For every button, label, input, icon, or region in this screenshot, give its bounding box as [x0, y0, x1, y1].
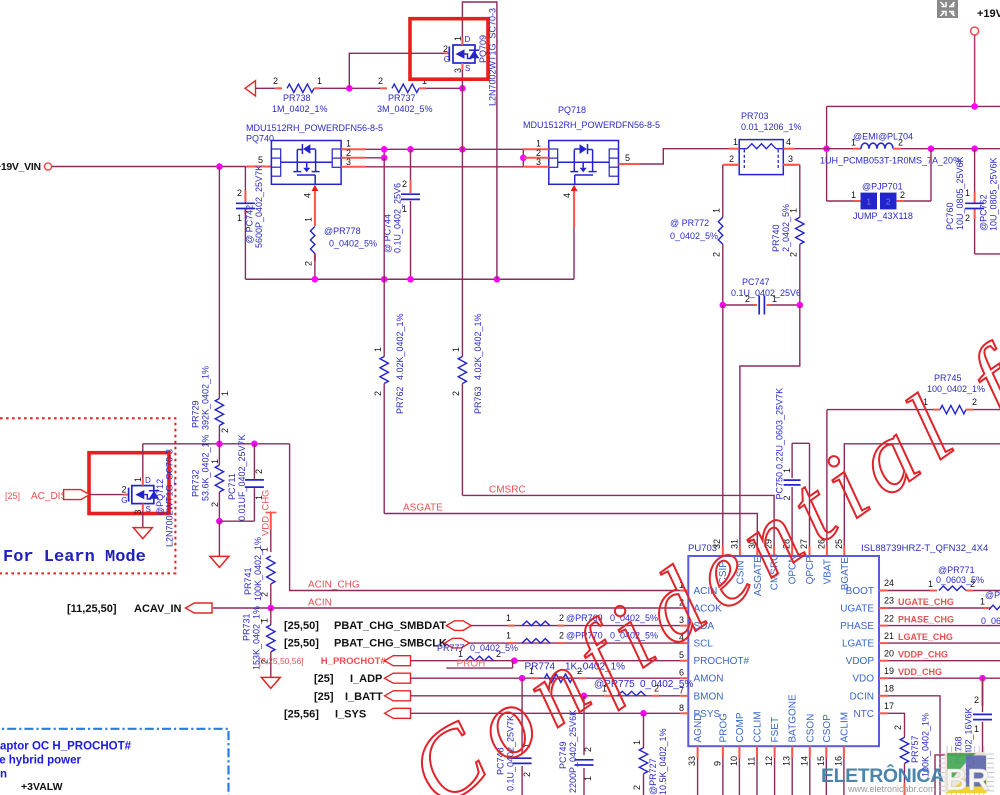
svg-text:4.02K_0402_1%: 4.02K_0402_1% — [395, 313, 405, 380]
transistor PQ740 mosfet symbol — [296, 150, 298, 172]
svg-text:2: 2 — [970, 579, 975, 589]
svg-text:@ PC742: @ PC742 — [245, 205, 255, 244]
capacitor PC760 (10U_0805_25V6K) — [965, 202, 984, 204]
svg-text:3: 3 — [536, 157, 541, 167]
wire PC760 bottom to PC762 — [975, 253, 1000, 255]
svg-text:1: 1 — [220, 391, 230, 396]
svg-text:VDOP: VDOP — [846, 656, 875, 667]
svg-text:ACIN_CHG: ACIN_CHG — [308, 580, 360, 591]
svg-text:2: 2 — [729, 154, 734, 164]
svg-text:FSET: FSET — [770, 717, 781, 743]
junction rail PR778 — [312, 276, 319, 283]
pin 18 DCIN — [879, 695, 888, 697]
pin 13 BATGONE column — [791, 746, 793, 758]
svg-text:2: 2 — [220, 428, 230, 433]
ground PQ712 — [133, 528, 152, 539]
svg-text:2: 2 — [237, 188, 242, 198]
svg-text:2: 2 — [583, 747, 593, 752]
svg-text:2: 2 — [259, 592, 269, 597]
svg-text:PR737: PR737 — [388, 93, 416, 103]
junction rail PC744 — [407, 276, 414, 283]
svg-text:0.1U_0402_25V6: 0.1U_0402_25V6 — [731, 288, 801, 298]
svg-text:ASGATE: ASGATE — [403, 503, 443, 514]
svg-text:[25]: [25] — [5, 491, 20, 501]
svg-text:10U_0805_25V6K: 10U_0805_25V6K — [989, 157, 999, 231]
pin 33 AGND column — [697, 746, 699, 758]
svg-text:PC711: PC711 — [227, 473, 237, 500]
svg-text:2_0402_5%: 2_0402_5% — [781, 204, 791, 252]
svg-text:aptor OC H_PROCHOT#: aptor OC H_PROCHOT# — [0, 741, 132, 753]
junction PR703 pin4 / PL704 pin1 node — [823, 145, 830, 152]
svg-text:n: n — [0, 769, 7, 781]
pin 23 UGATE — [879, 607, 888, 609]
svg-text:13: 13 — [782, 756, 792, 766]
svg-text:MDU1512RH_POWERDFN56-8-5: MDU1512RH_POWERDFN56-8-5 — [246, 123, 383, 133]
svg-text:[2,25,50,56]: [2,25,50,56] — [259, 656, 304, 666]
junction PQ718 pin connector — [520, 155, 527, 162]
svg-text:0_0402_5%: 0_0402_5% — [470, 643, 518, 653]
svg-text:100K_0402_1%: 100K_0402_1% — [253, 537, 263, 601]
wire +19V horizontal rail — [827, 105, 1000, 107]
junction PL704 output / PC760 — [971, 145, 978, 152]
wire SCL row — [470, 642, 681, 644]
pin 7 BMON — [680, 695, 688, 697]
svg-text:G: G — [444, 55, 450, 64]
svg-text:2: 2 — [632, 785, 642, 790]
svg-text:3: 3 — [788, 154, 793, 164]
pin 5 PROCHOT# — [680, 660, 688, 662]
inductor PL704 coils — [861, 143, 893, 149]
junction VDO / PC768 — [979, 675, 986, 682]
wire PR703 pin4 to +19V node — [795, 148, 827, 150]
svg-text:LGATE: LGATE — [842, 639, 874, 650]
svg-text:VDO: VDO — [852, 674, 874, 685]
resistor PR763 (4.02K_0402_1%) — [458, 357, 466, 384]
svg-text:ACLIM: ACLIM — [839, 712, 850, 743]
transistor PQ709 (L2N7002WT1G_SC70-3) — [444, 52, 449, 54]
svg-text:BATGONE: BATGONE — [788, 694, 799, 742]
svg-text:L2N7002WT1G_SC70-3: L2N7002WT1G_SC70-3 — [165, 449, 175, 547]
resistor PR737 (3M_0402_5%) — [392, 84, 419, 92]
wire ASGATE horizontal to IC pin30 — [384, 514, 757, 547]
svg-text:PHASE_CHG: PHASE_CHG — [898, 614, 954, 624]
svg-text:CSOP: CSOP — [822, 714, 833, 743]
svg-text:23: 23 — [884, 596, 894, 606]
svg-text:1: 1 — [259, 547, 269, 552]
transistor PQ718 (MDU1512RH_POWERDFN56-8-5) package — [549, 141, 619, 185]
wire BOOT row — [888, 590, 930, 592]
transistor PQ740 (MDU1512RH_POWERDFN56-8-5) package — [271, 141, 341, 185]
svg-text:MDU1512RH_POWERDFN56-8-5: MDU1512RH_POWERDFN56-8-5 — [523, 120, 660, 130]
wire jumper riser to PL704 output — [930, 149, 932, 201]
svg-text:11: 11 — [747, 757, 757, 766]
svg-text:1: 1 — [733, 137, 738, 147]
svg-text:1: 1 — [506, 631, 511, 641]
svg-text:2: 2 — [121, 485, 126, 495]
svg-text:BR: BR — [945, 762, 990, 795]
svg-text:I_SYS: I_SYS — [335, 708, 366, 720]
resistor PR757 (100K_0402_1%) — [900, 737, 908, 763]
svg-text:9: 9 — [712, 761, 722, 766]
wire VDOP row — [888, 660, 1000, 662]
svg-text:3: 3 — [453, 68, 463, 73]
resistor PR777 (0_0402_5%) — [466, 656, 494, 661]
pin 20 VDOP — [879, 660, 888, 662]
svg-text:0_0402_5%: 0_0402_5% — [329, 239, 377, 249]
svg-text:PHASE: PHASE — [840, 621, 874, 632]
svg-text:14: 14 — [799, 756, 809, 766]
svg-text:1: 1 — [851, 190, 856, 200]
wire BGATE column and row — [844, 444, 1000, 556]
pin stubs PR703 — [729, 148, 739, 150]
svg-text:PR703: PR703 — [741, 111, 769, 121]
svg-text:4.02K_0402_1%: 4.02K_0402_1% — [473, 313, 483, 380]
svg-text:PR738: PR738 — [283, 93, 311, 103]
junction VIN / PR729 branch — [216, 163, 223, 170]
svg-text:2: 2 — [745, 294, 750, 304]
wire +19V_VIN to PQ740 — [52, 166, 245, 168]
svg-text:5: 5 — [258, 155, 263, 165]
resistor PR778 column — [314, 254, 316, 262]
capacitor PC749 column — [583, 696, 585, 755]
node +19V port — [971, 27, 979, 35]
svg-text:24: 24 — [884, 578, 894, 588]
wire VBAT column to PR745 row — [826, 410, 828, 556]
svg-text:PROG: PROG — [718, 713, 729, 743]
svg-text:3: 3 — [346, 157, 351, 167]
svg-text:33: 33 — [687, 756, 697, 766]
svg-text:2: 2 — [378, 76, 383, 86]
wire +19V node to PL704 pin1 — [827, 148, 853, 150]
svg-text:1: 1 — [965, 188, 970, 198]
svg-text:2: 2 — [402, 179, 407, 189]
svg-text:VDD_CHG: VDD_CHG — [898, 667, 942, 677]
svg-text:1: 1 — [974, 724, 979, 734]
svg-text:2: 2 — [711, 252, 721, 257]
svg-text:10U_0805_25V6K: 10U_0805_25V6K — [955, 156, 965, 230]
wire bracket top — [792, 442, 809, 444]
resistor PR729 (392K_0402_1%) — [215, 399, 223, 426]
svg-text:10: 10 — [729, 756, 739, 766]
capacitor PC750 (0.22U_0603_25V7K) — [784, 479, 801, 481]
wire BMON row — [411, 695, 681, 697]
svg-text:1: 1 — [402, 204, 407, 214]
resistor PR732 (53.6K_0402_1%) — [218, 444, 220, 465]
svg-text:3: 3 — [133, 509, 143, 514]
junction learn row PC711 — [251, 441, 258, 448]
svg-text:1: 1 — [259, 618, 269, 623]
wire PR729 to learn row — [218, 426, 220, 444]
svg-text:JUMP_43X118: JUMP_43X118 — [853, 211, 913, 221]
svg-text:L2N7002WT1G_SC70-3: L2N7002WT1G_SC70-3 — [488, 8, 498, 106]
capacitor PC760 column — [974, 149, 976, 192]
junction PROCHOT — [511, 657, 518, 664]
svg-text:1M_0402_1%: 1M_0402_1% — [272, 104, 328, 114]
capacitor PC742 (5600P_0402_25V7K) — [236, 202, 255, 204]
wire PROCHOT row — [411, 660, 681, 662]
svg-text:PR757: PR757 — [910, 735, 920, 763]
svg-text:1: 1 — [304, 217, 314, 222]
svg-text:[25]: [25] — [314, 691, 334, 703]
svg-text:PR763: PR763 — [473, 386, 483, 414]
icon collapse — [937, 0, 958, 18]
junction learn row PR729 — [216, 441, 223, 448]
svg-text:[25,50]: [25,50] — [284, 620, 319, 632]
pin 9 PROG column — [722, 746, 724, 758]
resistor PR745 (100_0402_1%) — [940, 405, 966, 413]
junction PL704 output / jumper riser — [928, 145, 935, 152]
svg-text:PC760: PC760 — [945, 202, 955, 230]
svg-text:10.5K_0402_1%: 10.5K_0402_1% — [658, 728, 668, 795]
capacitor PC711 column — [253, 444, 255, 479]
wire QPCP column — [809, 443, 811, 546]
net alias PROH — [446, 667, 512, 669]
svg-text:UGATE: UGATE — [840, 604, 874, 615]
svg-text:PQ740: PQ740 — [246, 134, 274, 144]
logo ELETRONICABR — [821, 746, 994, 795]
junction PC747 right — [797, 302, 804, 309]
svg-text:@PJP701: @PJP701 — [862, 182, 903, 192]
svg-text:18: 18 — [884, 684, 894, 694]
svg-text:0.01_1206_1%: 0.01_1206_1% — [741, 122, 802, 132]
node gate drive arrow port — [245, 81, 256, 96]
resistor PR731 (153K_0402_1%) — [270, 608, 272, 625]
resistor PR740 column — [783, 164, 800, 166]
svg-text:+19VA: +19VA — [977, 8, 1000, 20]
svg-text:I_ADP: I_ADP — [350, 673, 382, 685]
transistor PQ712 (L2N7002WT1G_SC70-3) — [123, 494, 129, 496]
wire VBAT branch down to PR703/PL704 row — [826, 106, 828, 201]
wire PC768 bottom — [935, 755, 983, 795]
svg-text:[25,56]: [25,56] — [284, 708, 319, 720]
pin 12 FSET column — [774, 746, 776, 758]
svg-text:AC_DIS: AC_DIS — [31, 491, 67, 502]
wire UGATE row — [888, 607, 984, 609]
svg-text:PC747: PC747 — [742, 277, 770, 287]
capacitor PC747 (0.1U_0402_25V6) — [758, 296, 760, 315]
svg-text:AMON: AMON — [694, 674, 724, 685]
resistor PR774 (1K_0402_1%) — [531, 677, 538, 679]
junction PC747 left — [720, 302, 727, 309]
pin 24 BOOT — [879, 590, 888, 592]
svg-text:1: 1 — [317, 76, 322, 86]
wire arrow to PR738 — [256, 87, 276, 89]
svg-text:PR740: PR740 — [771, 224, 781, 252]
svg-text:For Learn Mode: For Learn Mode — [3, 548, 146, 567]
wire PQ712 drain up — [142, 444, 144, 479]
wire PR745 east — [966, 409, 973, 411]
pin 6 AMON — [680, 677, 688, 679]
svg-text:1: 1 — [346, 139, 351, 149]
svg-text:www.eletronicabr.com: www.eletronicabr.com — [847, 784, 936, 794]
svg-text:2: 2 — [254, 469, 264, 474]
highlight dotted box For Learn Mode — [0, 418, 175, 573]
pin 1 ACIN — [680, 590, 688, 592]
svg-text:12: 12 — [764, 756, 774, 766]
wire PR757 down — [904, 763, 906, 783]
wire AC_DIS to PQ712 gate — [90, 494, 123, 496]
svg-text:2: 2 — [965, 213, 970, 223]
svg-text:PR732: PR732 — [191, 469, 201, 497]
svg-text:1UH_PCMB053T-1R0MS_7A_20%: 1UH_PCMB053T-1R0MS_7A_20% — [820, 156, 961, 166]
resistor PR778 (0_0402_5%) — [310, 227, 315, 254]
svg-text:1: 1 — [237, 213, 242, 223]
svg-text:+19V_VIN: +19V_VIN — [0, 161, 41, 173]
transistor PQ740 pin4 arrow — [312, 185, 319, 191]
svg-text:22: 22 — [884, 613, 894, 623]
wire +19V vertical drop — [974, 35, 976, 106]
wire LGATE row — [888, 642, 1000, 644]
capacitor PC748 column — [521, 678, 523, 753]
svg-text:ACIN: ACIN — [308, 598, 332, 609]
wire PQ709 gate path — [349, 53, 444, 88]
wire CSIN column to IC pin 31 with jog — [740, 305, 800, 546]
svg-text:PQ709: PQ709 — [478, 35, 488, 63]
svg-text:2: 2 — [443, 44, 448, 54]
pin 11 CCLIM column — [756, 746, 758, 758]
svg-text:+3VALW: +3VALW — [21, 781, 63, 793]
pin stubs PQ740 pins 1 2 3 — [341, 148, 366, 150]
wire NTC to PR757 — [888, 713, 905, 737]
svg-text:2: 2 — [900, 190, 905, 200]
svg-text:1: 1 — [536, 139, 541, 149]
svg-text:8: 8 — [679, 703, 684, 713]
svg-text:S: S — [465, 64, 470, 73]
svg-text:2: 2 — [886, 197, 891, 207]
junction PR737 / PQ709 source — [459, 85, 466, 92]
svg-text:2: 2 — [496, 649, 501, 659]
svg-text:2: 2 — [451, 391, 461, 396]
svg-text:392K_0402_1%: 392K_0402_1% — [201, 366, 211, 430]
svg-text:2: 2 — [304, 261, 314, 266]
svg-text:PR731: PR731 — [242, 613, 252, 641]
junction pin2 x384 — [381, 155, 388, 162]
pin 15 CSOP column — [825, 746, 827, 758]
svg-text:19: 19 — [884, 666, 894, 676]
svg-text:[11,25,50]: [11,25,50] — [67, 603, 117, 615]
svg-text:@EMI@: @EMI@ — [853, 132, 887, 142]
svg-text:4: 4 — [786, 137, 791, 147]
svg-text:0.22U_0603_25V7K: 0.22U_0603_25V7K — [775, 388, 785, 469]
svg-text:PBAT_CHG_SMBDAT: PBAT_CHG_SMBDAT — [334, 620, 446, 632]
svg-text:1: 1 — [866, 197, 871, 207]
wire learn top row — [143, 443, 290, 445]
resistor PR741 (100K_0402_1%) — [267, 556, 275, 584]
wire PR738 to PR737 — [314, 87, 320, 89]
svg-text:PROH: PROH — [457, 659, 486, 670]
junction PSYS PR727 — [640, 710, 647, 717]
resistor PR769 (0_0402_5%) — [508, 625, 515, 627]
svg-text:1: 1 — [928, 579, 933, 589]
transistor PQ718 pin4 arrow — [571, 185, 578, 191]
junction lineA x384 — [381, 146, 388, 153]
svg-text:CSON: CSON — [805, 714, 816, 743]
pin 16 ACLIM column — [843, 746, 845, 758]
svg-text:1: 1 — [133, 477, 143, 482]
op-amp U703 ISL88739 charge controller box — [688, 556, 879, 746]
svg-text:@PR778: @PR778 — [324, 226, 361, 236]
svg-text:VDDP_CHG: VDDP_CHG — [898, 649, 948, 659]
svg-text:1: 1 — [453, 36, 463, 41]
wire VDO row — [888, 677, 1000, 679]
svg-text:COMP: COMP — [735, 712, 746, 742]
svg-text:2: 2 — [373, 391, 383, 396]
svg-text:21: 21 — [884, 631, 894, 641]
resistor PR775 (0_0402_5%) — [604, 695, 611, 697]
capacitor PC744 column — [410, 149, 412, 193]
wire line A pins1/2 to PQ718 — [366, 148, 523, 150]
junction lineA PQ709 source column — [459, 146, 466, 153]
svg-text:LGATE_CHG: LGATE_CHG — [898, 632, 953, 642]
pin 4 SCL — [680, 642, 688, 644]
svg-text:1: 1 — [506, 613, 511, 623]
resistor PR727 column — [643, 713, 645, 748]
wire PC747 row — [723, 304, 753, 306]
svg-text:2: 2 — [210, 502, 220, 507]
svg-text:AGND: AGND — [693, 714, 704, 743]
wire PSYS row — [411, 712, 681, 714]
pin 14 CSON column — [809, 746, 811, 758]
pin 3 SDA — [680, 625, 688, 627]
wire DCIN down — [888, 696, 940, 795]
svg-text:1: 1 — [632, 740, 642, 745]
svg-text:2: 2 — [974, 695, 979, 705]
svg-text:1: 1 — [851, 138, 856, 148]
svg-text:0.1U_0402_25V6: 0.1U_0402_25V6 — [393, 183, 403, 253]
svg-text:D: D — [465, 35, 471, 44]
svg-text:BGATE: BGATE — [840, 557, 851, 590]
wire PR745 row — [827, 409, 933, 411]
resistor PR772 column — [723, 164, 739, 166]
svg-text:@ PR772: @ PR772 — [670, 218, 709, 228]
wire PR737 to source column — [419, 87, 426, 89]
wire PQ709 drain to top loop — [462, 2, 497, 279]
svg-text:2: 2 — [898, 138, 903, 148]
highlight box PQ712 — [89, 453, 169, 514]
resistor PR773 partial at edge — [989, 605, 1000, 610]
capacitor PC768 column — [982, 678, 984, 706]
resistor PR738 (1M_0402_1%) — [287, 84, 314, 92]
svg-text:2: 2 — [893, 725, 903, 730]
junction rail PQ709 drain column — [494, 276, 501, 283]
highlight dash-dot note box — [0, 729, 229, 795]
svg-text:@PR: @PR — [985, 590, 1000, 600]
svg-text:53.6K_0402_1%: 53.6K_0402_1% — [201, 434, 211, 501]
svg-text:NTC: NTC — [853, 709, 874, 720]
svg-text:1: 1 — [373, 347, 383, 352]
svg-text:D: D — [145, 476, 151, 485]
jumper PJP701 pads — [861, 193, 878, 210]
capacitor PC742 column — [244, 167, 246, 204]
svg-text:CMSRC: CMSRC — [489, 485, 526, 496]
ground PR732 — [218, 521, 220, 556]
resistor PR740 (2_0402_5%) — [796, 217, 804, 244]
svg-text:@PQ712: @PQ712 — [155, 479, 165, 516]
resistor PR771 (0_0603_5%) — [939, 586, 966, 591]
pin 17 NTC — [879, 712, 888, 714]
wire PQ709 source down CMSRC column — [461, 70, 463, 149]
capacitor PC748 (0.1U_0402_25V7K) — [513, 757, 532, 759]
svg-text:0_0402_5%: 0_0402_5% — [670, 231, 718, 241]
svg-text:BMON: BMON — [694, 691, 724, 702]
capacitor PC711 (0.01UF_0402_25V7K) — [245, 479, 264, 481]
wire ASGATE column upper — [383, 158, 385, 357]
svg-text:[25,50]: [25,50] — [284, 638, 319, 650]
svg-text:5: 5 — [625, 153, 630, 163]
svg-text:6: 6 — [679, 668, 684, 678]
wire bottom rail — [245, 278, 574, 280]
svg-text:1: 1 — [451, 347, 461, 352]
